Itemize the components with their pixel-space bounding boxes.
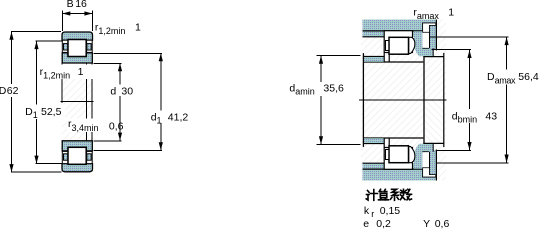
svg-text:d30: d30 — [110, 85, 133, 97]
B arrow right — [84, 11, 92, 15]
housing band — [363, 20, 437, 32]
char shu — [401, 189, 412, 200]
outer ring band right stub — [413, 32, 416, 37]
D1 arrow top — [34, 41, 38, 49]
svg-text:ramax1: ramax1 — [413, 6, 454, 21]
d dim line — [119, 63, 121, 140]
inner ring top — [62, 53, 92, 63]
roller bottom — [68, 147, 86, 164]
d_amin extension top — [317, 55, 361, 57]
D_amax arrow top — [505, 37, 509, 45]
char suan — [379, 189, 389, 200]
svg-text:d141,2: d141,2 — [151, 111, 189, 125]
outer ring side box top-right — [87, 40, 93, 52]
CJK heading 计算系数 (drawn strokes) — [366, 189, 411, 200]
housing right edge — [435, 20, 437, 51]
svg-text:D152,5: D152,5 — [25, 106, 61, 120]
D1 dim extension bottom — [36, 163, 63, 165]
cage box — [384, 31, 412, 53]
inner ring band — [364, 57, 384, 62]
d dim extension top — [93, 62, 121, 64]
cage square bottom-left — [64, 154, 68, 160]
hatch background left figure — [62, 32, 93, 172]
svg-text:Y0,6: Y0,6 — [423, 218, 449, 230]
D dim extension top — [11, 31, 61, 33]
housing bore line — [363, 30, 423, 32]
d1 dim extension bottom — [94, 149, 163, 151]
outer ring top — [62, 32, 93, 40]
D_amax arrow bottom — [505, 155, 509, 164]
D dim line — [11, 32, 13, 172]
d_bmin arrow top — [467, 50, 471, 58]
cage square top-left — [64, 44, 68, 50]
cage square bottom-right — [87, 154, 91, 160]
d_amin arrow top — [319, 56, 323, 64]
svg-text:B16: B16 — [67, 0, 87, 10]
bearing face line left — [61, 63, 63, 103]
D_amax dim line — [506, 37, 508, 163]
B dim extension right — [91, 11, 93, 32]
d arrow bottom — [118, 133, 122, 141]
D1 dim line — [36, 41, 38, 164]
D_amax extension top — [430, 36, 508, 38]
D arrow bottom — [9, 164, 13, 172]
d_bmin dim line — [469, 50, 471, 150]
svg-text:D62: D62 — [0, 85, 19, 97]
cage squares — [386, 41, 389, 51]
B dim line — [62, 13, 92, 15]
roller top — [68, 40, 86, 57]
d_amin extension bottom — [317, 143, 361, 145]
inner ring bottom — [62, 141, 92, 151]
D arrow top — [9, 32, 13, 40]
outer ring side box bottom-left — [62, 151, 68, 163]
d1 dim extension top — [94, 52, 162, 54]
centerline right figure — [359, 99, 447, 101]
d_bmin extension top — [432, 49, 471, 51]
label background boxes left figure — [37, 65, 96, 80]
flange ring line outer — [91, 63, 93, 141]
d_amin dim line — [320, 56, 322, 145]
D_amax extension bottom — [437, 162, 508, 164]
d1 arrow top — [159, 53, 163, 61]
end box — [424, 57, 444, 100]
char xi — [391, 189, 399, 200]
shaft shoulder — [362, 53, 364, 100]
flange ring curved — [409, 37, 415, 53]
d1 arrow bottom — [159, 142, 163, 150]
d_amin arrow bottom — [319, 136, 323, 144]
D dim extension bottom — [11, 171, 62, 173]
mirrored bottom half right figure — [363, 100, 444, 181]
notch white column below groove — [423, 33, 429, 48]
d1 dim line — [160, 53, 162, 150]
hatch background right figure — [361, 20, 446, 181]
centerline left figure — [61, 100, 94, 102]
housing lip column — [430, 26, 436, 50]
shaft bore line — [363, 61, 423, 63]
d_bmin extension bottom — [437, 149, 471, 151]
groove slot+notch — [423, 23, 436, 32]
D1 arrow bottom — [34, 156, 38, 164]
B arrow left — [62, 11, 70, 15]
label background boxes right figure — [287, 82, 347, 96]
outer ring band left — [363, 32, 385, 37]
d_bmin arrow bottom — [467, 142, 471, 150]
cage left edge extension — [383, 53, 385, 62]
outer ring side box top-left — [62, 40, 68, 52]
outer ring side box bottom-right — [87, 151, 93, 163]
D1 dim extension top — [36, 40, 63, 42]
svg-text:0,6: 0,6 — [109, 120, 124, 132]
d dim extension bottom — [93, 140, 121, 142]
cage square top-right — [87, 44, 91, 50]
roller — [389, 37, 409, 54]
d arrow top — [118, 63, 122, 71]
char ji — [366, 190, 377, 201]
outer ring bottom — [62, 164, 93, 172]
svg-text:r1,2min1: r1,2min1 — [95, 22, 141, 37]
svg-text:e0,2: e0,2 — [363, 218, 391, 230]
blue spacer piece and foot — [414, 31, 433, 56]
B dim extension left — [61, 11, 63, 32]
flange ring line inner — [86, 63, 88, 141]
